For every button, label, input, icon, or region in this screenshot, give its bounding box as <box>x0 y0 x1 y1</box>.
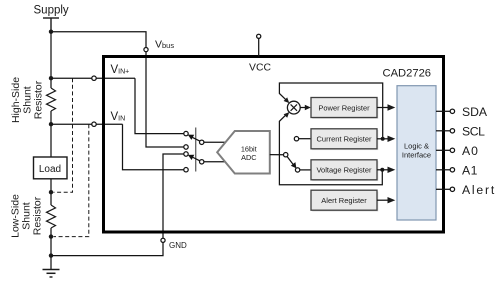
wire power register to logic <box>377 107 389 109</box>
wire GND to switch S2 <box>51 242 163 255</box>
wire ADC output <box>270 154 284 156</box>
wire to current register <box>299 138 311 140</box>
pin SDA <box>436 110 450 112</box>
svg-text:Load: Load <box>39 164 61 175</box>
svg-text:Current Register: Current Register <box>316 135 372 144</box>
resistor low-side shunt <box>47 205 56 228</box>
current register <box>311 129 378 150</box>
pin Alert <box>436 188 450 190</box>
dashed alternate wire from VIN+ <box>54 78 89 236</box>
logic and interface block <box>397 86 436 220</box>
wire Vbus to switch S1 <box>146 52 184 147</box>
svg-text:CAD2726: CAD2726 <box>383 68 432 80</box>
label Low-Side Shunt Resistor <box>10 194 44 238</box>
pin VIN+ terminal <box>92 76 96 80</box>
svg-text:A1: A1 <box>462 164 478 178</box>
voltage register <box>311 160 378 181</box>
wire VIN to switch S2 <box>123 124 184 170</box>
svg-text:High-Side: High-Side <box>10 77 22 123</box>
label High-Side Shunt Resistor <box>10 77 45 123</box>
svg-text:Supply: Supply <box>34 5 69 17</box>
svg-text:SDA: SDA <box>462 105 488 119</box>
wire supply rail down to resistor R1 <box>50 32 52 88</box>
alert register <box>311 190 378 211</box>
wire resistor R2 to ground <box>50 228 52 270</box>
arrow into multiplier bottom <box>284 112 290 118</box>
pin GND terminal <box>161 238 165 242</box>
pin Vbus terminal <box>144 48 148 52</box>
junction VIN+ tap <box>49 76 53 80</box>
dashed alternate wire from VIN <box>54 124 89 236</box>
wire current register to logic <box>377 138 389 140</box>
svg-text:ADC: ADC <box>241 153 256 162</box>
svg-text:SCL: SCL <box>462 125 485 139</box>
junction GND wire tap <box>49 253 53 257</box>
junction supply tap <box>49 30 53 34</box>
wire VIN horizontal <box>51 123 123 125</box>
svg-text:Logic &: Logic & <box>404 142 429 151</box>
wire Load to resistor R2 <box>50 179 52 205</box>
wire multiplier to power register <box>300 107 305 109</box>
chip outer box <box>104 57 444 233</box>
load box <box>34 157 68 179</box>
ground symbol <box>43 270 60 278</box>
switch S3 register select <box>284 137 300 173</box>
svg-text:Alert Register: Alert Register <box>321 196 367 205</box>
wire current register feedback to multiplier <box>279 83 382 139</box>
svg-text:Alert: Alert <box>462 183 496 197</box>
svg-text:Resistor: Resistor <box>33 80 45 119</box>
wire supply to Vbus <box>51 32 146 48</box>
switch S1 <box>184 131 204 149</box>
junction load bottom <box>49 190 53 194</box>
wire resistor to Load <box>50 111 52 157</box>
svg-text:Resistor: Resistor <box>32 196 44 235</box>
pin VIN terminal <box>92 122 96 126</box>
pin A1 <box>436 169 450 171</box>
junction voltage register output <box>380 168 384 172</box>
arrow into multiplier top <box>284 97 290 103</box>
pin SCL <box>436 130 450 132</box>
junction current register output <box>381 137 385 141</box>
resistor high-side shunt <box>47 88 56 111</box>
wire alert register to logic <box>377 199 389 201</box>
svg-text:A0: A0 <box>462 144 479 158</box>
wire to voltage register <box>300 169 311 171</box>
svg-text:Interface: Interface <box>402 151 431 160</box>
multiplier <box>287 101 300 114</box>
svg-text:GND: GND <box>169 241 187 250</box>
switch S1 gang line <box>195 128 197 172</box>
junction dashed tap <box>49 234 53 238</box>
junction VIN tap <box>49 122 53 126</box>
wire voltage register to logic <box>377 169 389 171</box>
supply rail symbol <box>43 18 59 32</box>
pin VCC terminal <box>258 38 260 56</box>
pin A0 <box>436 149 450 151</box>
wire VIN+ to switch S1 <box>135 78 184 133</box>
wire S1 common to ADC <box>204 141 227 143</box>
svg-text:Power Register: Power Register <box>318 103 370 112</box>
wire S2 common to ADC <box>204 161 227 163</box>
wire VIN+ horizontal <box>51 77 135 79</box>
wire voltage register feedback to multiplier <box>279 115 382 185</box>
svg-text:VCC: VCC <box>249 63 271 74</box>
power register <box>311 98 378 119</box>
ADC block <box>217 131 270 174</box>
switch S2 <box>184 152 204 172</box>
svg-text:Voltage Register: Voltage Register <box>316 166 372 175</box>
svg-text:Vbus: Vbus <box>155 39 174 51</box>
